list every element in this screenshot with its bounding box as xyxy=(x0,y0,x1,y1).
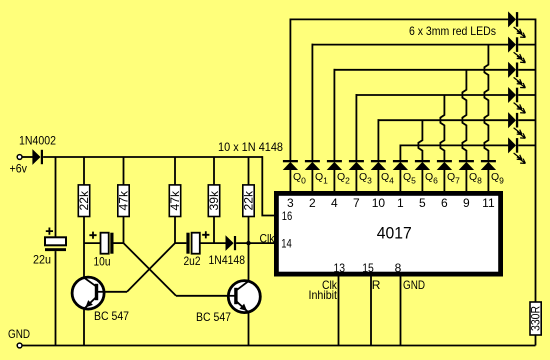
junction node D xyxy=(246,241,250,245)
terminal +6v input xyxy=(17,155,22,160)
label Q7 xyxy=(447,171,460,185)
label Q1 xyxy=(315,171,328,185)
wire node B diagonal to Q2 base xyxy=(124,243,177,296)
svg-text:22k: 22k xyxy=(242,190,256,210)
svg-text:330R: 330R xyxy=(529,306,543,331)
svg-text:4017: 4017 xyxy=(377,225,412,243)
svg-text:47k: 47k xyxy=(168,190,182,210)
LED 6 red 3mm xyxy=(508,138,525,163)
resistor R1 22k xyxy=(77,185,91,217)
op-amp 4017 IC body U1 xyxy=(276,193,500,274)
wire pin lead column Q2 xyxy=(333,169,335,192)
wire riser Q8 with hops xyxy=(462,70,466,161)
wire LED line 3 xyxy=(334,69,509,71)
LED 1 red 3mm xyxy=(508,12,525,37)
terminal GND xyxy=(17,343,22,348)
wire node C diagonal to Q1 base xyxy=(127,243,175,292)
wire riser Q2 to line 3 xyxy=(333,69,335,161)
svg-text:3: 3 xyxy=(287,196,294,210)
wire pin 15 to ground xyxy=(370,277,372,346)
wire right bus xyxy=(535,19,537,303)
wire pin lead column Q4 xyxy=(377,169,379,192)
wire pin lead column Q3 xyxy=(355,169,357,192)
wire node A to C2 left xyxy=(84,242,101,244)
wire D2 to node D xyxy=(236,242,276,244)
wire riser Q4 to line 5 xyxy=(377,119,379,160)
wire node C to C3 left xyxy=(175,242,186,244)
wire LED line 6 xyxy=(400,144,509,146)
svg-text:5: 5 xyxy=(419,196,426,210)
transistor Q2 BC547 xyxy=(228,281,260,313)
wire riser Q6 with hops xyxy=(418,120,422,160)
wire pin lead column Q5 xyxy=(399,169,401,192)
diode D6 1N4148 column Q3 xyxy=(349,160,364,170)
wire ground rail xyxy=(22,345,535,347)
resistor R6 330R xyxy=(529,302,543,335)
wire LED 5 cathode to bus xyxy=(518,119,535,121)
wire rail to pin 16 xyxy=(262,156,276,215)
svg-text:4: 4 xyxy=(331,196,338,210)
svg-text:6: 6 xyxy=(441,196,448,210)
wire +6v rail xyxy=(43,156,262,158)
svg-text:R: R xyxy=(372,278,381,292)
svg-text:8: 8 xyxy=(395,261,402,275)
diode D2 1N4148 xyxy=(226,236,236,250)
wire pin lead column Q6 xyxy=(421,169,423,192)
LED 4 red 3mm xyxy=(508,88,525,113)
wire pin lead column Q7 xyxy=(443,169,445,192)
wire R5 bottom to Q2 collector xyxy=(248,217,250,282)
svg-text:22k: 22k xyxy=(77,190,91,210)
wire LED 4 cathode to bus xyxy=(518,94,535,96)
capacitor C2 10u xyxy=(101,233,114,254)
wire pin lead column Q1 xyxy=(311,169,313,192)
diode D4 1N4148 column Q1 xyxy=(305,160,320,170)
label Q3 xyxy=(359,171,372,185)
svg-text:7: 7 xyxy=(353,196,360,210)
wire Q1 emitter to ground xyxy=(83,308,85,345)
svg-text:11: 11 xyxy=(482,196,495,210)
svg-text:10: 10 xyxy=(372,196,386,210)
wire riser Q3 to line 4 xyxy=(355,94,357,160)
wire LED line 4 xyxy=(356,94,509,96)
wire riser Q0 to line 1 xyxy=(289,19,291,161)
wire pin lead column Q9 xyxy=(487,169,489,192)
svg-text:16: 16 xyxy=(282,209,293,223)
wire C1 bottom lead xyxy=(55,251,57,345)
wire R4 top lead xyxy=(213,157,215,185)
wire LED line 5 xyxy=(378,119,509,121)
wire riser Q5 to line 6 xyxy=(399,145,401,161)
diode D10 1N4148 column Q7 xyxy=(437,160,452,170)
wire LED 3 cathode to bus xyxy=(518,69,535,71)
label C1 plus xyxy=(46,228,53,235)
capacitor C3 2u2 xyxy=(186,233,199,254)
LED 3 red 3mm xyxy=(508,63,525,88)
wire R5 top lead xyxy=(248,157,250,185)
wire C1 top lead xyxy=(55,157,57,237)
svg-text:9: 9 xyxy=(463,196,470,210)
wire C2 right to node B xyxy=(114,242,124,244)
diode D7 1N4148 column Q4 xyxy=(371,160,386,170)
svg-text:1N4148: 1N4148 xyxy=(209,253,246,267)
wire input to D1 xyxy=(22,156,32,158)
wire LED 6 cathode to bus xyxy=(518,144,535,146)
label Q8 xyxy=(469,171,482,185)
diode D8 1N4148 column Q5 xyxy=(393,160,408,170)
label Q6 xyxy=(425,171,438,185)
svg-text:GND: GND xyxy=(403,278,425,292)
wire LED line 2 xyxy=(312,44,509,46)
label C2 plus xyxy=(89,232,96,239)
svg-text:GND: GND xyxy=(8,327,30,341)
svg-text:15: 15 xyxy=(362,261,374,275)
wire R2 top lead xyxy=(123,157,125,185)
svg-text:6 x 3mm red LEDs: 6 x 3mm red LEDs xyxy=(409,24,496,38)
svg-text:2u2: 2u2 xyxy=(184,254,201,268)
svg-text:39k: 39k xyxy=(207,190,221,210)
wire Q2 emitter to ground xyxy=(248,312,250,346)
svg-text:1N4002: 1N4002 xyxy=(19,133,56,147)
label Q9 xyxy=(491,171,504,185)
resistor R5 22k xyxy=(242,185,256,217)
label Q2 xyxy=(337,171,350,185)
resistor R4 39k xyxy=(207,185,221,217)
label Q4 xyxy=(381,171,394,185)
svg-text:Clk: Clk xyxy=(260,232,276,246)
label C3 plus xyxy=(202,231,209,238)
wire riser Q1 to line 2 xyxy=(311,44,313,161)
wire 330R to ground rail xyxy=(535,335,537,346)
svg-text:10u: 10u xyxy=(94,254,111,268)
LED 5 red 3mm xyxy=(508,113,525,138)
wire LED line 1 xyxy=(290,18,509,20)
wire pin 8 to ground xyxy=(400,277,402,346)
diode D1 1N4002 xyxy=(33,150,43,164)
transistor Q1 BC547 xyxy=(72,277,104,309)
svg-text:22u: 22u xyxy=(33,252,51,266)
wire Q2 base lead xyxy=(176,295,230,297)
wire R3 bottom lead xyxy=(174,217,176,244)
wire pin 13 to ground xyxy=(338,277,340,346)
LED 2 red 3mm xyxy=(508,37,525,62)
wire C3 right to D2 xyxy=(200,242,226,244)
label Q0 xyxy=(293,171,306,185)
wire pin lead column Q8 xyxy=(465,169,467,192)
wire riser Q7 with hops xyxy=(440,95,444,161)
diode D9 1N4148 column Q6 xyxy=(415,160,430,170)
wire riser Q9 with hops xyxy=(484,45,488,161)
svg-text:BC 547: BC 547 xyxy=(94,309,129,323)
capacitor C1 22u xyxy=(45,237,66,251)
svg-text:2: 2 xyxy=(309,196,316,210)
wire Q1 base lead xyxy=(103,291,127,293)
wire R3 top lead xyxy=(174,157,176,185)
diode D12 1N4148 column Q9 xyxy=(481,160,496,170)
label Clk Inhibit xyxy=(309,278,338,302)
wire R2 bottom lead xyxy=(123,217,125,244)
resistor R3 47k xyxy=(168,185,182,217)
svg-text:47k: 47k xyxy=(117,190,131,210)
wire pin lead column Q0 xyxy=(289,169,291,192)
svg-text:10 x 1N 4148: 10 x 1N 4148 xyxy=(218,140,283,154)
diode D11 1N4148 column Q8 xyxy=(459,160,474,170)
wire LED 2 cathode to bus xyxy=(518,44,535,46)
svg-text:+6v: +6v xyxy=(10,162,28,176)
wire R1 top lead xyxy=(83,157,85,185)
svg-text:Inhibit: Inhibit xyxy=(309,288,338,302)
wire R1 bottom to Q1 collector xyxy=(83,217,85,278)
diode D5 1N4148 column Q2 xyxy=(327,160,342,170)
svg-text:14: 14 xyxy=(281,236,292,250)
wire LED 1 cathode to bus xyxy=(518,18,535,20)
svg-text:1: 1 xyxy=(397,196,404,210)
svg-text:13: 13 xyxy=(334,261,346,275)
wire R4 bottom lead xyxy=(213,217,215,244)
svg-text:BC 547: BC 547 xyxy=(196,310,231,324)
label Q5 xyxy=(403,171,416,185)
resistor R2 47k xyxy=(117,185,131,217)
diode D3 1N4148 column Q0 xyxy=(283,160,298,170)
